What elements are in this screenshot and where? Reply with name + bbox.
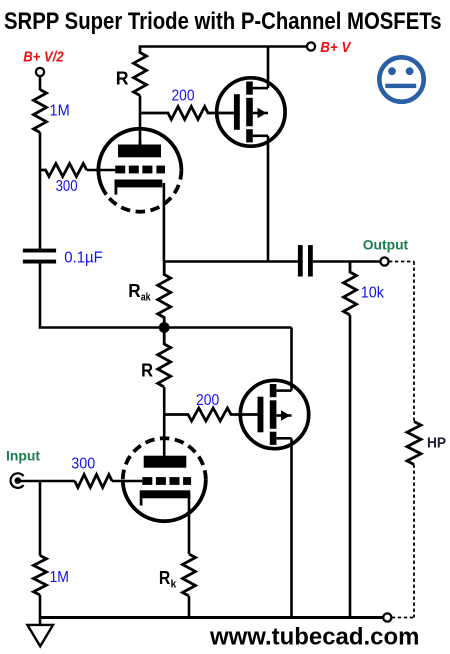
- wire R to plate V1: [139, 96, 142, 147]
- wire grid lead V1: [87, 169, 116, 172]
- wire source Q1 down: [267, 136, 270, 262]
- svg-text:R: R: [116, 68, 129, 88]
- svg-text:R: R: [128, 281, 140, 301]
- svg-text:200: 200: [196, 392, 220, 409]
- smiley icon: [379, 57, 423, 101]
- svg-text:HP: HP: [427, 435, 446, 452]
- resistor 300 (upper): [40, 164, 87, 177]
- transistor Q1 P-MOSFET: [217, 78, 285, 146]
- svg-text:300: 300: [56, 178, 78, 195]
- wire dashed right column upper: [413, 262, 415, 422]
- transistor Q2 P-MOSFET: [240, 380, 308, 448]
- resistor 300 (lower): [75, 475, 112, 488]
- label Rak: [128, 281, 151, 304]
- svg-text:1M: 1M: [50, 569, 70, 586]
- svg-text:200: 200: [172, 87, 195, 104]
- wire drain Q1 to rail: [267, 47, 270, 89]
- resistor HP: [407, 422, 421, 465]
- wire dashed bottom link: [392, 617, 414, 619]
- svg-text:0.1µF: 0.1µF: [64, 249, 103, 266]
- svg-text:B+ V: B+ V: [320, 39, 352, 56]
- wire dashed output link: [389, 261, 414, 263]
- wire source Q2 down: [290, 438, 293, 617]
- wire input column down: [39, 481, 42, 556]
- ground: [27, 625, 53, 646]
- wire top rail B+: [139, 45, 307, 48]
- resistor 200 (lower): [164, 408, 257, 421]
- wire bottom rail: [40, 616, 383, 619]
- terminal B+ V: [307, 42, 315, 50]
- wire dashed right column lower: [413, 465, 415, 618]
- wire drain Q2 riser: [290, 328, 293, 391]
- wire R to plate V2: [163, 387, 166, 457]
- wire row cathode/source to cap: [164, 260, 298, 263]
- wire left column 1M to cap: [39, 133, 42, 250]
- wire cathode lead V2: [188, 494, 191, 554]
- svg-text:R: R: [159, 568, 170, 588]
- svg-text:1M: 1M: [50, 102, 70, 119]
- terminal B+ V/2: [36, 68, 44, 76]
- svg-text:Input: Input: [6, 448, 40, 464]
- svg-text:R: R: [141, 361, 153, 381]
- svg-text:300: 300: [71, 456, 95, 473]
- wire Rk to rail: [188, 596, 191, 618]
- svg-text:www.tubecad.com: www.tubecad.com: [209, 623, 419, 650]
- resistor Rk: [183, 554, 196, 596]
- terminal Output: [380, 257, 388, 265]
- svg-text:10k: 10k: [361, 285, 384, 302]
- svg-text:Output: Output: [363, 236, 409, 252]
- resistor 10k: [344, 262, 357, 316]
- resistor R (lower): [158, 330, 171, 387]
- wire junction row: [39, 326, 292, 329]
- node junction dot: [159, 322, 170, 333]
- wire cap to output terminal: [313, 260, 381, 263]
- capacitor output: [298, 245, 313, 276]
- wire 1M to ground: [39, 595, 42, 625]
- resistor 1M (upper): [34, 90, 47, 133]
- svg-text:SRPP Super Triode with P-Chann: SRPP Super Triode with P-Channel MOSFETs: [4, 8, 442, 35]
- label Rk: [159, 568, 177, 591]
- capacitor 0.1uF: [23, 249, 56, 264]
- triode V1 (upper tube): [98, 129, 181, 212]
- input jack: [11, 473, 24, 488]
- resistor 200 (upper): [140, 107, 234, 120]
- svg-text:ak: ak: [141, 292, 152, 304]
- terminal bottom: [383, 613, 391, 621]
- wire terminal to 1M: [39, 77, 42, 91]
- wire 10k to bottom rail: [349, 315, 352, 618]
- resistor R (upper): [134, 47, 147, 96]
- svg-text:B+ V/2: B+ V/2: [23, 49, 64, 66]
- wire grid lead V2: [112, 480, 142, 483]
- triode V2 (lower tube): [123, 438, 206, 521]
- resistor 1M (lower): [34, 556, 47, 596]
- wire cathode lead V1: [163, 183, 166, 262]
- wire input to 300: [18, 480, 75, 483]
- wire cap to junction row: [39, 264, 42, 328]
- resistor Rak: [158, 262, 171, 323]
- svg-text:k: k: [171, 579, 177, 591]
